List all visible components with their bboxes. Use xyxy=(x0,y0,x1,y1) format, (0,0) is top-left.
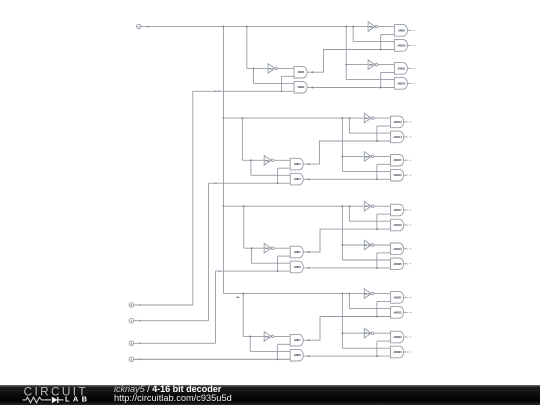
wire INV10 output to AND19 input 1 xyxy=(374,244,391,246)
AND gate AND11 xyxy=(394,63,407,75)
wire group1 tap down to AND2 input 1 xyxy=(253,68,255,83)
wire group2 a-bus xyxy=(224,117,365,119)
svg-text:http://circuitlab.com/c935u5d: http://circuitlab.com/c935u5d xyxy=(114,393,232,403)
junction main vertical / group3 a-bus xyxy=(223,205,225,207)
wire P stub into AND21 input 2 xyxy=(377,301,391,303)
wire Q stub into AND23 input 2 xyxy=(377,340,391,342)
wire a into AND12 input 1 xyxy=(346,79,394,81)
junction riser / group1 input bus xyxy=(281,90,283,92)
AND gate AND1 xyxy=(294,66,307,78)
wire P net AND5 output to AND18 input 2 xyxy=(303,229,390,252)
wire P riser to AND17 input 2 xyxy=(376,214,378,229)
svg-text:c: c xyxy=(131,320,133,323)
net label AND15 output xyxy=(409,159,412,161)
inverter INV2 xyxy=(264,156,274,166)
net label AND22 output xyxy=(409,311,412,313)
wire to AND2 input 1 xyxy=(254,82,295,84)
wire INV9 output to AND17 input 1 xyxy=(374,205,391,207)
node dot AND1 output xyxy=(311,71,313,73)
wire group4 select bus into AND8 input 2 xyxy=(134,358,291,360)
wire AND10 output stub xyxy=(408,44,412,46)
AND gate AND2 xyxy=(294,81,307,93)
node dot AND6 output xyxy=(308,267,310,269)
wire a into AND10 input 1 xyxy=(353,41,394,43)
svg-text:AND3: AND3 xyxy=(294,162,301,166)
junction group4 a-bus / vertical A xyxy=(341,293,343,295)
net label on group1 b bus xyxy=(214,90,216,92)
svg-text:INV11: INV11 xyxy=(365,294,371,296)
wire AND16 output stub xyxy=(404,174,408,176)
svg-text:b: b xyxy=(131,303,133,307)
junction riser / group3 input bus xyxy=(277,270,279,272)
AND gate AND12 xyxy=(394,78,407,90)
wire AND5 input 2 stub xyxy=(278,255,291,257)
junction group3 inverter input tap xyxy=(250,247,252,249)
node dot AND2 output xyxy=(311,87,313,89)
junction group4 a-bus / drop xyxy=(242,293,244,295)
wire P net AND7 output to AND22 input 2 xyxy=(303,317,390,341)
wire input a to INV5 input (group1 a-bus) xyxy=(141,26,368,28)
net label on group1 b bus 2 xyxy=(218,90,220,92)
input terminal b xyxy=(129,303,141,308)
wire group2 drop from a-bus to INV2 xyxy=(241,118,243,160)
wire INV6 input xyxy=(346,64,368,66)
svg-text:INV10: INV10 xyxy=(365,245,371,247)
wire group3 drop from a-bus to INV3 xyxy=(243,206,245,248)
inverter INV5 xyxy=(368,22,378,32)
wire group3 tap down to AND6 input 1 xyxy=(250,248,252,263)
wire AND1 input 2 riser xyxy=(281,76,283,91)
junction a-wire / main vertical xyxy=(223,26,225,28)
net label AND18 output xyxy=(409,224,412,226)
wire group3 INV3 input xyxy=(244,247,265,249)
wire AND22 output stub xyxy=(404,311,408,313)
wire group4 INV4 input xyxy=(243,335,264,337)
wire AND14 output stub xyxy=(404,136,408,138)
wire group2 a vertical to INV8 and AND16 xyxy=(341,118,343,171)
junction vertical A / INV8 input xyxy=(341,155,343,157)
input terminal e xyxy=(129,357,141,362)
wire Q stub into AND15 input 2 xyxy=(377,163,391,165)
wire group2 INV2 input xyxy=(242,159,264,161)
wire Q net AND6 output to AND20 input 2 xyxy=(303,267,390,269)
AND gate AND4 xyxy=(290,173,303,185)
wire group4 drop from a-bus to INV4 xyxy=(242,294,244,337)
node dot AND7 output xyxy=(308,339,310,341)
AND gate AND15 xyxy=(391,154,404,166)
svg-text:AND22: AND22 xyxy=(394,310,403,314)
net label AND10 output xyxy=(413,44,416,46)
junction group2 a-bus / vertical B xyxy=(348,117,350,119)
AND gate AND7 xyxy=(290,334,303,346)
AND gate AND3 xyxy=(290,158,303,170)
wire INV6 output to AND11 input 1 xyxy=(378,64,395,66)
junction P line / riser group2 xyxy=(376,140,378,142)
svg-text:AND12: AND12 xyxy=(397,81,406,85)
wire AND7 input 2 riser xyxy=(276,344,278,359)
junction Q line / riser group1 xyxy=(380,87,382,89)
junction group1 a-bus / vertical B xyxy=(352,26,354,28)
wire terminal b horizontal xyxy=(134,304,193,306)
svg-text:AND18: AND18 xyxy=(394,223,403,227)
wire terminal c riser to group2 bus xyxy=(208,183,210,321)
wire INV1 output to AND1 input 1 xyxy=(278,67,295,69)
net label AND11 output xyxy=(413,67,416,69)
wire AND12 output stub xyxy=(408,82,412,84)
wire Q riser to AND15 input 2 xyxy=(376,164,378,179)
net label AND20 output xyxy=(409,263,412,265)
logo diode symbol xyxy=(45,399,51,401)
wire INV8 output to AND15 input 1 xyxy=(374,155,391,157)
inverter INV3 xyxy=(264,243,274,253)
wire group2 select bus into AND4 input 2 xyxy=(209,182,291,184)
node dot AND4 output xyxy=(308,178,310,180)
wire a into AND20 input 1 xyxy=(342,259,390,261)
wire group1 INV1 input xyxy=(247,67,268,69)
svg-text:AND2: AND2 xyxy=(298,85,305,89)
net label AND13 output xyxy=(409,121,412,123)
wire P riser to AND21 input 2 xyxy=(376,302,378,317)
wire group4 a vertical to INV12 and AND24 xyxy=(341,294,343,349)
wire INV5 output to AND9 input 1 xyxy=(378,26,395,28)
net label AND12 output xyxy=(413,82,416,84)
node dot AND5 output xyxy=(308,251,310,253)
svg-text:AND23: AND23 xyxy=(394,335,403,339)
wire INV8 input xyxy=(342,155,364,157)
net label AND17 output xyxy=(409,209,412,211)
inverter INV7 xyxy=(364,113,374,123)
junction group3 a-bus / vertical B xyxy=(348,205,350,207)
junction group3 a-bus / vertical A xyxy=(341,205,343,207)
junction group3 a-bus / drop xyxy=(243,205,245,207)
svg-text:e: e xyxy=(131,358,133,361)
AND gate AND14 xyxy=(391,131,404,143)
AND gate AND8 xyxy=(290,349,303,361)
wire Q net AND8 output to AND24 input 2 xyxy=(303,355,390,357)
svg-text:AND19: AND19 xyxy=(394,247,403,251)
svg-text:AND14: AND14 xyxy=(394,135,403,139)
wire a into AND24 input 1 xyxy=(342,347,390,349)
node dot AND3 output xyxy=(308,163,310,165)
svg-text:a: a xyxy=(138,26,140,29)
junction riser / group4 input bus xyxy=(276,358,278,360)
wire group4 tap down to AND8 input 1 xyxy=(249,336,251,351)
net label AND19 output xyxy=(409,248,412,250)
inverter INV12 xyxy=(364,328,374,338)
wire group2 a vertical to AND14 input 1 xyxy=(348,118,350,133)
input terminal c xyxy=(129,318,141,323)
inverter INV9 xyxy=(364,201,374,211)
junction group2 inverter input tap xyxy=(250,159,252,161)
wire INV7 output to AND13 input 1 xyxy=(374,117,391,119)
wire group2 tap down to AND4 input 1 xyxy=(250,160,252,175)
wire INV4 output to AND7 input 1 xyxy=(274,335,291,337)
wire AND19 output stub xyxy=(404,248,408,250)
AND gate AND24 xyxy=(391,346,404,358)
junction Q line / riser group4 xyxy=(376,355,378,357)
svg-text:AND5: AND5 xyxy=(294,250,301,254)
wire P net AND1 output to AND10 input 2 xyxy=(307,50,394,73)
wire AND7 input 2 stub xyxy=(277,343,290,345)
junction group4 inverter input tap xyxy=(249,335,251,337)
wire INV3 output to AND5 input 1 xyxy=(274,247,291,249)
wire group3 a-bus xyxy=(224,205,365,207)
wire group1 a vertical to AND10 input 1 xyxy=(352,27,354,42)
wire Q riser to AND11 input 2 xyxy=(380,73,382,88)
wire main vertical bus of input a xyxy=(223,27,225,294)
AND gate AND6 xyxy=(290,261,303,273)
net label AND16 output xyxy=(409,174,412,176)
wire a into AND16 input 1 xyxy=(342,170,390,172)
net label AND24 output xyxy=(409,351,412,353)
footer bar xyxy=(0,385,540,405)
wire Q riser to AND19 input 2 xyxy=(376,253,378,268)
svg-text:AND6: AND6 xyxy=(294,265,301,269)
svg-text:d: d xyxy=(131,341,133,345)
junction Q line / riser group3 xyxy=(376,267,378,269)
junction group2 a-bus / vertical A xyxy=(341,117,343,119)
junction Q line / riser group2 xyxy=(376,178,378,180)
junction P line / riser group1 xyxy=(380,49,382,51)
AND gate AND13 xyxy=(391,116,404,128)
wire AND3 input 2 stub xyxy=(278,167,291,169)
AND gate AND23 xyxy=(391,331,404,343)
wire group1 select bus into AND2 input 2 xyxy=(193,90,294,92)
svg-text:AND11: AND11 xyxy=(397,66,406,70)
svg-text:AND20: AND20 xyxy=(394,262,403,266)
junction group1 a-bus / drop xyxy=(246,26,248,28)
junction group4 a-bus / vertical B xyxy=(348,293,350,295)
net label on group4 a bus xyxy=(236,296,239,298)
wire P net AND3 output to AND14 input 2 xyxy=(303,141,390,164)
wire a into AND18 input 1 xyxy=(349,220,390,222)
wire a into AND14 input 1 xyxy=(349,132,390,134)
wire terminal b riser to group1 bus xyxy=(192,91,194,305)
wire group1 a vertical to INV6 and AND12 xyxy=(345,27,347,80)
wire AND5 input 2 riser xyxy=(277,256,279,271)
AND gate AND10 xyxy=(394,40,407,52)
wire Q net AND4 output to AND16 input 2 xyxy=(303,178,390,180)
wire Q stub into AND11 input 2 xyxy=(381,72,395,74)
input terminal d xyxy=(129,341,141,346)
net label on group2 c bus xyxy=(215,182,217,184)
wire AND24 output stub xyxy=(404,351,408,353)
wire AND1 input 2 stub xyxy=(282,75,294,77)
svg-text:AND17: AND17 xyxy=(394,208,403,212)
wire group3 a vertical to AND18 input 1 xyxy=(348,206,350,221)
junction vertical A / INV12 input xyxy=(341,332,343,334)
net label AND21 output xyxy=(409,296,412,298)
net label on group3 d bus xyxy=(219,270,221,272)
input terminal a xyxy=(137,24,149,29)
wire P stub into AND9 input 2 xyxy=(381,34,395,36)
wire AND21 output stub xyxy=(404,296,408,298)
junction vertical A / INV6 input xyxy=(345,64,347,66)
wire terminal c horizontal xyxy=(134,320,209,322)
svg-text:AND24: AND24 xyxy=(394,350,403,354)
svg-text:AND9: AND9 xyxy=(398,28,405,32)
wire INV2 output to AND3 input 1 xyxy=(274,159,291,161)
svg-text:AND7: AND7 xyxy=(294,338,301,342)
wire group3 select bus into AND6 input 2 xyxy=(216,270,291,272)
inverter INV8 xyxy=(364,152,374,162)
svg-text:AND21: AND21 xyxy=(394,295,403,299)
inverter INV4 xyxy=(264,332,274,342)
wire group3 a vertical to INV10 and AND20 xyxy=(341,206,343,260)
wire terminal e to AND8 input 2 (group4 bus) xyxy=(134,358,291,360)
wire terminal d horizontal xyxy=(134,342,216,344)
node dot AND8 output xyxy=(308,355,310,357)
AND gate AND16 xyxy=(391,169,404,181)
wire a into AND22 input 1 xyxy=(349,308,390,310)
junction vertical A / INV10 input xyxy=(341,244,343,246)
wire to AND6 input 1 xyxy=(251,262,290,264)
wire AND13 output stub xyxy=(404,121,408,123)
svg-text:LAB: LAB xyxy=(65,394,90,403)
inverter INV1 xyxy=(268,64,278,74)
junction group1 a-bus / vertical A xyxy=(345,26,347,28)
AND gate AND9 xyxy=(394,25,407,37)
inverter INV6 xyxy=(368,60,378,70)
junction group2 a-bus / drop xyxy=(241,117,243,119)
inverter INV11 xyxy=(364,289,374,299)
svg-text:AND15: AND15 xyxy=(394,158,403,162)
junction P line / riser group3 xyxy=(376,228,378,230)
wire group4 a vertical to AND22 input 1 xyxy=(348,294,350,309)
wire terminal d riser to group3 bus xyxy=(215,271,217,343)
wire group4 a-bus xyxy=(224,293,365,295)
wire P riser to AND13 input 2 xyxy=(376,126,378,141)
svg-text:AND4: AND4 xyxy=(294,177,301,181)
wire INV12 input xyxy=(342,332,364,334)
wire AND20 output stub xyxy=(404,263,408,265)
wire INV10 input xyxy=(342,244,364,246)
AND gate AND19 xyxy=(391,243,404,255)
logo resistor symbol xyxy=(23,397,46,403)
net label AND14 output xyxy=(409,136,412,138)
wire AND3 input 2 riser xyxy=(277,168,279,183)
wire group1 drop from a-bus to INV1 xyxy=(246,27,248,69)
svg-text:AND8: AND8 xyxy=(294,353,301,357)
svg-text:AND1: AND1 xyxy=(298,70,305,74)
wire AND11 output stub xyxy=(408,67,412,69)
junction P line / riser group4 xyxy=(376,316,378,318)
svg-text:AND13: AND13 xyxy=(394,120,403,124)
junction riser / group2 input bus xyxy=(277,182,279,184)
svg-text:AND16: AND16 xyxy=(394,173,403,177)
net label AND23 output xyxy=(409,336,412,338)
wire AND23 output stub xyxy=(404,336,408,338)
AND gate AND5 xyxy=(290,246,303,258)
AND gate AND17 xyxy=(391,204,404,216)
wire Q riser to AND23 input 2 xyxy=(376,341,378,356)
net label AND9 output xyxy=(413,29,416,31)
wire Q net AND2 output to AND12 input 2 xyxy=(307,87,394,89)
wire AND9 output stub xyxy=(408,29,412,31)
svg-text:INV12: INV12 xyxy=(365,333,371,335)
inverter INV10 xyxy=(364,240,374,250)
wire INV12 output to AND23 input 1 xyxy=(374,332,391,334)
wire AND17 output stub xyxy=(404,209,408,211)
AND gate AND18 xyxy=(391,219,404,231)
wire AND15 output stub xyxy=(404,159,408,161)
AND gate AND20 xyxy=(391,258,404,270)
wire P stub into AND17 input 2 xyxy=(377,213,391,215)
junction main vertical / group2 a-bus xyxy=(223,117,225,119)
AND gate AND22 xyxy=(391,307,404,319)
wire to AND4 input 1 xyxy=(251,174,290,176)
AND gate AND21 xyxy=(391,292,404,304)
wire AND18 output stub xyxy=(404,224,408,226)
wire to AND8 input 1 xyxy=(250,350,290,352)
wire Q stub into AND19 input 2 xyxy=(377,252,391,254)
junction group1 inverter input tap xyxy=(253,67,255,69)
wire P riser to AND9 input 2 xyxy=(380,35,382,50)
wire INV11 output to AND21 input 1 xyxy=(374,293,391,295)
svg-text:AND10: AND10 xyxy=(397,43,406,47)
wire P stub into AND13 input 2 xyxy=(377,125,391,127)
